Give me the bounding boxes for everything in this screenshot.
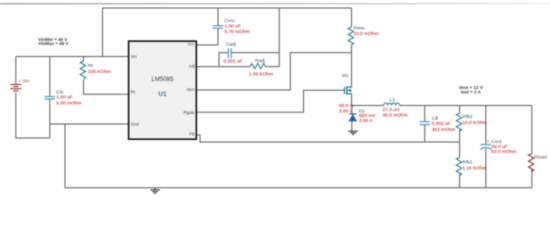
svg-text:10.0 mOhm: 10.0 mOhm <box>354 31 379 37</box>
svg-text:+: + <box>487 140 490 145</box>
svg-text:+ Vin: + Vin <box>18 79 29 85</box>
svg-text:50.0 mOhm: 50.0 mOhm <box>491 149 516 155</box>
svg-text:Isen: Isen <box>187 87 196 92</box>
svg-text:0.002 uF: 0.002 uF <box>432 121 451 127</box>
svg-text:Iout = 2 A: Iout = 2 A <box>461 89 482 94</box>
svg-text:3.00 A: 3.00 A <box>339 109 353 115</box>
svg-text:U1: U1 <box>158 91 167 98</box>
svg-text:5.70 mOhm: 5.70 mOhm <box>225 29 250 35</box>
svg-text:Cout: Cout <box>491 139 502 145</box>
svg-text:105 KOhm: 105 KOhm <box>88 69 111 75</box>
svg-text:39.0 uF: 39.0 uF <box>491 144 507 150</box>
svg-text:L1: L1 <box>390 97 396 103</box>
svg-text:1.00 uF: 1.00 uF <box>225 23 241 29</box>
svg-text:Gnd: Gnd <box>131 121 140 126</box>
svg-text:45.0 mOhm: 45.0 mOhm <box>383 113 408 119</box>
svg-text:1.05 KOhm: 1.05 KOhm <box>249 72 273 78</box>
svg-text:Vcc: Vcc <box>188 41 195 46</box>
svg-text:1.00 uF: 1.00 uF <box>56 95 72 101</box>
svg-text:5.00 mOhm: 5.00 mOhm <box>56 101 81 107</box>
svg-text:Rfb2: Rfb2 <box>462 114 472 120</box>
svg-text:Rt: Rt <box>88 63 93 69</box>
svg-text:FB: FB <box>189 131 195 136</box>
svg-text:453 mOhm: 453 mOhm <box>432 127 456 133</box>
svg-text:Rsns: Rsns <box>354 26 366 32</box>
svg-text:10.0 KOhm: 10.0 KOhm <box>462 120 486 126</box>
svg-text:27.0 uH: 27.0 uH <box>383 107 400 113</box>
svg-text:1.15 KOhm: 1.15 KOhm <box>462 165 486 171</box>
svg-text:VinMax = 48 V: VinMax = 48 V <box>38 41 68 46</box>
svg-text:Cvcc: Cvcc <box>225 18 236 24</box>
svg-text:Adj: Adj <box>189 64 195 69</box>
svg-text:Rfb1: Rfb1 <box>462 159 472 165</box>
svg-text:Cin: Cin <box>56 90 64 96</box>
svg-text:3.00 A: 3.00 A <box>359 118 373 124</box>
svg-text:LM5085: LM5085 <box>151 76 174 83</box>
svg-text:60.0 m: 60.0 m <box>339 103 354 109</box>
svg-text:0.001 uF: 0.001 uF <box>224 59 243 65</box>
svg-text:Vin: Vin <box>131 54 138 59</box>
svg-text:Cadj: Cadj <box>226 41 236 47</box>
svg-text:M1: M1 <box>342 73 349 79</box>
svg-text:Pgate: Pgate <box>184 110 196 115</box>
svg-text:Rload: Rload <box>534 154 547 160</box>
svg-text:Radj: Radj <box>255 58 265 64</box>
